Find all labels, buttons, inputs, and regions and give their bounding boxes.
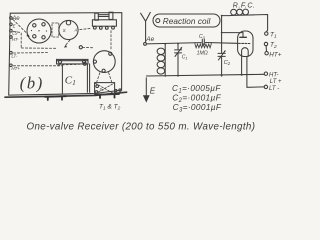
svg-text:T1 & T2: T1 & T2: [99, 104, 121, 112]
svg-text:A: A: [74, 28, 78, 33]
svg-text:E: E: [150, 86, 156, 95]
svg-text:C2: C2: [224, 60, 231, 66]
svg-text:HT-: HT-: [269, 73, 278, 79]
svg-text:One-valve Receiver (200 to 550: One-valve Receiver (200 to 550 m. Wave-l…: [27, 122, 256, 133]
svg-text:HT-: HT-: [12, 37, 19, 42]
svg-text:S: S: [63, 28, 66, 33]
svg-text:Reaction coil: Reaction coil: [163, 17, 211, 26]
svg-text:Ae: Ae: [145, 36, 154, 43]
svg-text:HT+: HT+: [269, 52, 281, 59]
svg-text:LT-: LT-: [11, 53, 18, 58]
svg-text:c₂: c₂: [100, 87, 104, 92]
svg-text:R.F.C.: R.F.C.: [233, 3, 256, 10]
svg-text:1MΩ: 1MΩ: [197, 51, 208, 57]
svg-text:HT+: HT+: [11, 66, 20, 71]
svg-text:LT +: LT +: [270, 79, 282, 85]
svg-text:Ae: Ae: [11, 16, 20, 22]
svg-text:(b): (b): [20, 74, 44, 93]
svg-text:LT -: LT -: [269, 86, 279, 92]
svg-text:E: E: [13, 24, 16, 29]
svg-text:LS: LS: [12, 31, 17, 36]
